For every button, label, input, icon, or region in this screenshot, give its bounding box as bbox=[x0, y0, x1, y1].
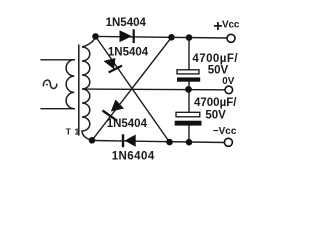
terminal 0V bbox=[225, 86, 233, 94]
svg-text:0V: 0V bbox=[222, 76, 234, 87]
svg-text:50V: 50V bbox=[205, 109, 226, 121]
node TL junction bbox=[92, 33, 99, 40]
node TR junction bbox=[168, 34, 175, 41]
svg-text:1N5404: 1N5404 bbox=[106, 17, 147, 29]
AC source squiggle bbox=[43, 80, 56, 88]
diode D4 1N6404 bottom rail bbox=[123, 134, 136, 147]
capacitor C2 4700uF/50V bbox=[175, 112, 202, 125]
wire capacitor C1 top lead bbox=[188, 38, 190, 70]
node BL junction bbox=[89, 137, 96, 144]
wire bottom rail bbox=[92, 141, 225, 143]
wire top rail bbox=[96, 36, 228, 38]
wire primary top lead bbox=[41, 59, 74, 61]
capacitor C1 4700uF/50V bbox=[177, 70, 200, 82]
wire primary bottom lead bbox=[41, 108, 74, 110]
wire capacitor C2 top lead bbox=[188, 89, 190, 112]
svg-text:Vcc: Vcc bbox=[222, 20, 240, 31]
svg-text:4700µF/: 4700µF/ bbox=[194, 97, 237, 109]
terminal +Vcc bbox=[227, 34, 235, 42]
transformer T1 primary winding bbox=[66, 60, 74, 109]
diode D3 1N5404 lower diagonal bbox=[103, 100, 125, 121]
svg-text:1N6404: 1N6404 bbox=[112, 150, 155, 162]
node C1/C2 middle junction bbox=[185, 86, 192, 93]
svg-text:50V: 50V bbox=[208, 65, 229, 77]
wire capacitor C2 bottom lead bbox=[188, 126, 190, 143]
node C1 top junction bbox=[186, 34, 193, 41]
svg-text:T 1: T 1 bbox=[66, 127, 80, 137]
wire capacitor C1 bottom lead bbox=[188, 82, 190, 90]
node BR junction bbox=[166, 139, 173, 146]
wire diagonal TL to BR bbox=[96, 36, 170, 142]
diode D1 1N5404 top rail bbox=[120, 29, 134, 43]
transformer core bbox=[78, 45, 80, 135]
diode D2 1N5404 upper diagonal bbox=[104, 58, 123, 72]
svg-text:−Vcc: −Vcc bbox=[213, 126, 237, 137]
wire middle rail 0V bbox=[85, 88, 225, 91]
terminal -Vcc bbox=[224, 138, 232, 146]
transformer T1 secondary winding bbox=[82, 36, 96, 140]
node C2 bottom junction bbox=[186, 139, 193, 146]
svg-text:1N5404: 1N5404 bbox=[108, 47, 149, 59]
wire diagonal BL to TR bbox=[92, 37, 172, 140]
svg-text:4700µF/: 4700µF/ bbox=[192, 53, 238, 65]
svg-text:1N5404: 1N5404 bbox=[107, 118, 148, 130]
